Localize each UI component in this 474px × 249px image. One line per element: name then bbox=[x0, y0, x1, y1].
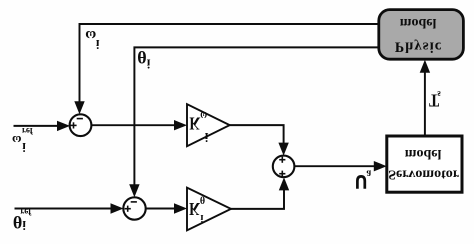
svg-text:v: v bbox=[408, 166, 415, 181]
arrow into summing junction S2 bbox=[111, 203, 124, 213]
svg-text:a: a bbox=[366, 167, 371, 180]
svg-text:ω: ω bbox=[12, 133, 22, 148]
wire S3 to Servomotor model bbox=[294, 165, 375, 167]
svg-text:e: e bbox=[431, 146, 437, 161]
svg-text:i: i bbox=[430, 39, 434, 55]
svg-text:y: y bbox=[414, 39, 422, 55]
block Servomotor model box bbox=[387, 136, 462, 192]
arrow feedback omega into S1 bbox=[74, 101, 84, 114]
svg-text:o: o bbox=[415, 166, 422, 181]
wire feedback theta from Physic model bbox=[134, 47, 378, 186]
svg-text:K: K bbox=[189, 199, 200, 218]
label u of control u_a bbox=[357, 176, 364, 188]
arrow into K-theta block bbox=[174, 203, 187, 213]
label ref superscript of theta_ref bbox=[20, 207, 32, 217]
node S3 summing junction bbox=[273, 156, 295, 178]
svg-text:θ: θ bbox=[200, 193, 205, 204]
sign plus at S3 top bbox=[279, 159, 285, 161]
svg-text:h: h bbox=[405, 39, 414, 55]
svg-text:l: l bbox=[438, 146, 442, 161]
arrow into Servomotor model bbox=[374, 161, 387, 171]
arrow feedback theta into S2 bbox=[129, 184, 139, 197]
arrow into K-omega block bbox=[174, 120, 187, 130]
svg-text:S: S bbox=[388, 166, 396, 181]
node S1 summing junction bbox=[70, 114, 92, 136]
wire S1 to K-omega block bbox=[91, 124, 175, 126]
wire K-theta to summing junction S3 bbox=[231, 189, 284, 209]
sign minus at S2 top bbox=[131, 201, 137, 203]
svg-text:K: K bbox=[189, 113, 200, 132]
svg-text:i: i bbox=[147, 56, 151, 71]
label model of Physic box bbox=[400, 15, 437, 30]
sign plus at S3 bottom bbox=[279, 173, 285, 175]
wire K-omega to summing junction S3 bbox=[230, 125, 284, 144]
svg-text:l: l bbox=[433, 15, 437, 30]
gain block K-theta triangle bbox=[187, 188, 231, 231]
svg-text:θ: θ bbox=[137, 47, 146, 67]
svg-text:ω: ω bbox=[200, 109, 207, 123]
arrow into Physic model bbox=[420, 60, 430, 73]
svg-text:i: i bbox=[22, 140, 26, 155]
arrow into S3 from top bbox=[278, 143, 288, 156]
svg-text:c: c bbox=[435, 39, 442, 55]
svg-text:i: i bbox=[205, 130, 209, 145]
svg-text:e: e bbox=[426, 15, 432, 30]
wire input omega_ref bbox=[14, 125, 60, 127]
svg-text:m: m bbox=[405, 146, 417, 161]
svg-text:s: s bbox=[423, 39, 429, 55]
svg-text:s: s bbox=[437, 88, 440, 100]
block Physic model box bbox=[379, 10, 464, 60]
wire input theta_ref bbox=[15, 208, 114, 210]
arrow into S3 from bottom bbox=[279, 177, 289, 190]
svg-text:i: i bbox=[200, 212, 203, 224]
svg-text:o: o bbox=[417, 146, 424, 161]
arrow into summing junction S1 bbox=[57, 121, 70, 131]
svg-text:m: m bbox=[400, 15, 412, 30]
label Physic of box bbox=[395, 39, 442, 55]
svg-text:P: P bbox=[395, 39, 404, 55]
node S2 summing junction bbox=[123, 197, 145, 219]
wire S2 to K-theta block bbox=[146, 208, 175, 210]
svg-text:i: i bbox=[22, 218, 26, 233]
label Servomotor of box bbox=[388, 166, 459, 181]
svg-text:θ: θ bbox=[13, 212, 22, 232]
svg-text:o: o bbox=[412, 15, 419, 30]
wire Servomotor to Physic model bbox=[424, 72, 426, 136]
svg-text:r: r bbox=[453, 166, 459, 181]
svg-text:i: i bbox=[96, 37, 100, 52]
svg-text:ω: ω bbox=[85, 27, 96, 43]
svg-text:o: o bbox=[446, 166, 453, 181]
wire feedback omega from Physic model bbox=[80, 24, 379, 103]
label model of Servomotor box bbox=[405, 146, 442, 161]
sign minus at S1 top bbox=[77, 118, 83, 120]
svg-text:m: m bbox=[422, 166, 434, 181]
sign plus at S1 left bbox=[70, 124, 76, 126]
label ref superscript of omega_ref bbox=[22, 126, 34, 136]
sign plus at S2 left bbox=[125, 208, 131, 210]
gain block K-omega triangle bbox=[187, 104, 230, 146]
svg-text:o: o bbox=[434, 166, 441, 181]
